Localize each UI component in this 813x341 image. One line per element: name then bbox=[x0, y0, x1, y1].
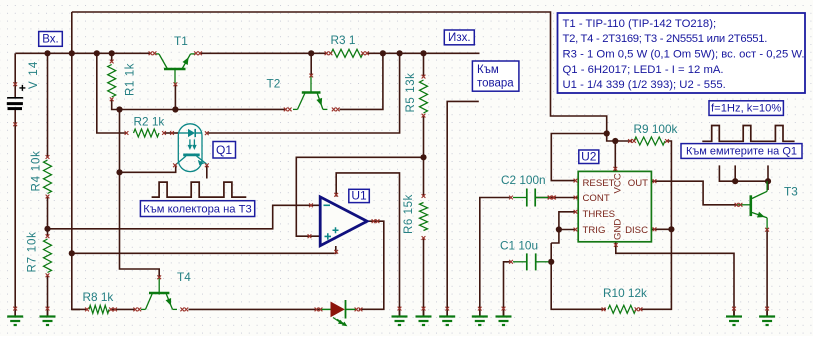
wire T2 emitter to bus bbox=[340, 53, 383, 109]
IC U2 pin labels bbox=[583, 173, 649, 240]
label R4 10k bbox=[31, 150, 43, 191]
optocoupler Q1 LED bbox=[179, 129, 202, 137]
pin marks R9 bbox=[628, 139, 669, 143]
label R10 12k bbox=[603, 286, 647, 300]
capacitor C2 bbox=[513, 189, 549, 207]
resistor R7 bbox=[44, 239, 52, 273]
junction node x71/op-amp bus bbox=[69, 250, 75, 256]
label R7 10k bbox=[27, 231, 39, 272]
ground T3 bbox=[759, 307, 775, 325]
label box f=1Hz bbox=[709, 101, 783, 116]
wire bus T1 to T2 collector node bbox=[199, 52, 328, 54]
wire R6 to ground bbox=[423, 238, 425, 316]
resistor R2 bbox=[134, 129, 160, 137]
wire annotation stub right bbox=[767, 165, 769, 181]
label box Q1 bbox=[213, 142, 236, 159]
transistor T1 bbox=[155, 54, 196, 110]
optocoupler Q1 body bbox=[178, 124, 202, 172]
svg-text:T1 - TIP-110 (TIP-142 TO218);: T1 - TIP-110 (TIP-142 TO218); bbox=[563, 18, 717, 30]
svg-text:R3 - 1 Om 0,5 W (0,1 Om 5W);: R3 - 1 Om 0,5 W (0,1 Om 5W); вс. ост - 0… bbox=[563, 49, 805, 61]
pin marks LED1 bbox=[315, 308, 363, 312]
wire R7 to ground bbox=[47, 276, 49, 316]
svg-text:R8 1k: R8 1k bbox=[83, 290, 114, 304]
pin marks R4 bbox=[46, 155, 50, 198]
pin marks U2 bbox=[548, 167, 656, 247]
label C1 10u bbox=[500, 239, 538, 253]
pin marks R2 bbox=[125, 131, 174, 135]
svg-text:RESET: RESET bbox=[583, 178, 615, 189]
pin marks T1 bbox=[149, 51, 202, 86]
junction node bus/T2 collector bbox=[308, 50, 314, 56]
wire T3 collector riser bbox=[767, 181, 769, 190]
wire T3 emitter to ground bbox=[766, 230, 768, 316]
pin marks T2 bbox=[284, 74, 340, 112]
resistor R6 bbox=[420, 203, 428, 231]
svg-text:R5 13k: R5 13k bbox=[405, 72, 417, 112]
wire bus R3 right to end bbox=[367, 52, 480, 54]
wire C2 right to CONT pin bbox=[535, 197, 578, 199]
junction node DISC/R9/R10 bbox=[668, 226, 674, 232]
svg-text:R7 10k: R7 10k bbox=[27, 231, 39, 272]
wire Q1 cathode to bus bbox=[207, 53, 400, 133]
wire node A to T1 tail bbox=[120, 109, 176, 111]
junction node T3 collector bbox=[765, 178, 771, 184]
wire R5 bottom to noninverting input bbox=[296, 157, 423, 236]
junction node bus/Q1 cathode bbox=[397, 50, 403, 56]
resistor R4 bbox=[44, 160, 52, 194]
wire R4 to R7 junction bbox=[47, 197, 49, 237]
capacitor C1 bbox=[513, 253, 549, 270]
svg-text:TRIG: TRIG bbox=[583, 225, 606, 236]
wire R1 top stub bbox=[111, 53, 113, 62]
junction node A right T1 tail bbox=[172, 106, 178, 112]
wire T4 emitter to LED anode bbox=[189, 308, 322, 310]
wire load annotation bbox=[447, 101, 479, 315]
wire node B down to T4 base bbox=[120, 110, 160, 278]
svg-text:DISC: DISC bbox=[625, 225, 648, 236]
pin marks battery bbox=[13, 82, 17, 126]
label box Vkh bbox=[39, 32, 63, 47]
resistor R9 bbox=[634, 137, 665, 145]
waveform at Q1 emitters bbox=[702, 126, 794, 142]
wire T3 collector node link bbox=[735, 180, 768, 182]
svg-text:U1: U1 bbox=[351, 188, 367, 202]
svg-text:C2 100n: C2 100n bbox=[501, 173, 546, 187]
wire op-amp bottom power bus bbox=[72, 246, 336, 253]
svg-text:V 14: V 14 bbox=[28, 61, 40, 89]
svg-text:R9 100k: R9 100k bbox=[634, 122, 678, 136]
resistor R8 bbox=[89, 305, 109, 313]
svg-text:U1 - 1/4 339 (1/2 393); U2 - 5: U1 - 1/4 339 (1/2 393); U2 - 555. bbox=[563, 79, 726, 91]
svg-text:T2, T4 - 2T3169; T3 - 2N5551 и: T2, T4 - 2T3169; T3 - 2N5551 или 2T6551. bbox=[563, 33, 768, 45]
note line 5 bbox=[563, 79, 726, 91]
label box to collector T3 bbox=[140, 201, 254, 217]
pin marks T4 bbox=[133, 275, 188, 311]
junction node bus/R5 bbox=[420, 50, 426, 56]
wire LED row left bbox=[72, 308, 87, 310]
wire T2 collector stub bbox=[310, 53, 312, 75]
note line 2 bbox=[563, 33, 768, 45]
wire op-amp power top route bbox=[336, 173, 399, 316]
label T3 bbox=[784, 185, 798, 199]
svg-text:R3 1: R3 1 bbox=[331, 33, 356, 47]
label T2 bbox=[267, 77, 281, 91]
svg-text:U2: U2 bbox=[581, 149, 597, 163]
pin marks R8 bbox=[85, 308, 117, 312]
wire Q1 LED anode from R2 bbox=[164, 132, 179, 134]
note line 1 bbox=[563, 18, 717, 30]
wire R8 to T4 base bbox=[111, 308, 135, 310]
label box U1 bbox=[349, 188, 370, 202]
label C2 100n bbox=[501, 173, 546, 187]
junction node bus/x71 bbox=[69, 50, 75, 56]
wire R1 bottom jog to node bbox=[112, 99, 120, 110]
battery V 14 bbox=[7, 85, 26, 109]
wire left vertical x71 bus to R8 bbox=[72, 12, 80, 309]
resistor R1 bbox=[108, 65, 116, 98]
junction node A left bbox=[116, 106, 122, 112]
op-amp U1 bbox=[320, 197, 367, 246]
svg-text:T1: T1 bbox=[174, 34, 188, 48]
svg-text:VCC: VCC bbox=[613, 173, 624, 193]
svg-text:THRES: THRES bbox=[583, 209, 616, 220]
wire battery top bbox=[14, 53, 16, 97]
pin marks R7 bbox=[46, 234, 50, 277]
junction node TRIG/THRES bbox=[556, 226, 562, 232]
wire Q1 emitter stub annotation bbox=[206, 165, 208, 179]
pin marks C2 bbox=[509, 196, 555, 200]
junction node R5/R6 divider bbox=[420, 154, 426, 160]
label R6 15k bbox=[403, 194, 415, 234]
wire main supply bus y53 left bbox=[16, 52, 152, 54]
junction node bus/R2 bbox=[94, 50, 100, 56]
ground battery bbox=[7, 307, 23, 325]
LED LED1 bbox=[321, 300, 357, 326]
wire VCC pin stub bbox=[614, 141, 616, 171]
svg-text:R1 1k: R1 1k bbox=[125, 63, 137, 96]
pin marks R3 bbox=[325, 51, 369, 55]
wire C1 right junction riser bbox=[551, 243, 601, 309]
pin marks R6 bbox=[422, 194, 426, 240]
wire VCC serpentine to RESET bbox=[551, 134, 606, 181]
svg-text:Към: Към bbox=[477, 64, 499, 76]
ground U2 GND bbox=[726, 307, 742, 325]
transistor T3 bbox=[738, 181, 768, 229]
resistor R5 bbox=[420, 80, 428, 113]
wire R10 left stub bbox=[602, 308, 607, 310]
svg-text:R6 15k: R6 15k bbox=[403, 194, 415, 234]
svg-text:R4 10k: R4 10k bbox=[31, 150, 43, 191]
wire VCC jog bbox=[607, 134, 616, 142]
label box to emitters Q1 bbox=[681, 144, 802, 159]
label R3 1 bbox=[331, 33, 356, 47]
note line 3 bbox=[563, 49, 805, 61]
label T1 bbox=[174, 34, 188, 48]
transistor T4 bbox=[141, 277, 177, 309]
svg-text:Вх.: Вх. bbox=[42, 33, 59, 45]
resistor R3 bbox=[331, 49, 363, 57]
junction node VCC lower bbox=[612, 138, 618, 144]
wire GND pin to ground bbox=[616, 242, 734, 316]
svg-text:R10 12k: R10 12k bbox=[603, 286, 647, 300]
svg-text:товара: товара bbox=[477, 78, 514, 90]
junction node bus/R1 bbox=[109, 50, 115, 56]
junction node R4/R7 divider bbox=[44, 226, 50, 232]
resistor R10 bbox=[608, 305, 636, 313]
wire THRES to TRIG tie bbox=[559, 212, 576, 230]
pin marks Q1 bbox=[173, 131, 209, 167]
wire OUT to T3 base route bbox=[651, 181, 737, 205]
notes box bbox=[558, 13, 806, 93]
svg-text:Към емитерите на Q1: Към емитерите на Q1 bbox=[686, 146, 797, 158]
svg-text:Q1: Q1 bbox=[216, 143, 232, 157]
junction node VCC upper bbox=[604, 130, 610, 136]
wire top rail bbox=[72, 12, 607, 134]
wire R2 feed from bus bbox=[97, 53, 126, 133]
wire annotation stub left bbox=[719, 165, 735, 181]
wire TRIG node to C1 bbox=[551, 230, 559, 244]
wire Q1 phototransistor collector to node B bbox=[120, 165, 176, 173]
optocoupler Q1 phototransistor bbox=[177, 155, 207, 165]
ground C2 bbox=[472, 307, 488, 325]
wire DISC pin to riser bbox=[651, 228, 671, 230]
ground R7 bbox=[40, 307, 56, 325]
label V 14 bbox=[28, 61, 40, 89]
IC U2 body bbox=[578, 171, 651, 241]
label box Izkh bbox=[444, 30, 474, 45]
junction node B Q1 collector bbox=[116, 169, 122, 175]
pin marks T3 bbox=[735, 203, 769, 232]
svg-text:OUT: OUT bbox=[628, 178, 648, 189]
pin marks U1 bbox=[308, 193, 380, 254]
junction node C1/TRIG bbox=[548, 259, 554, 265]
ground load bbox=[439, 307, 455, 325]
svg-text:T3: T3 bbox=[784, 185, 798, 199]
waveform at T3 collector bbox=[152, 182, 247, 197]
pin marks R1 bbox=[110, 60, 114, 102]
label R2 1k bbox=[134, 115, 165, 129]
wire C2 left to ground bbox=[480, 198, 510, 316]
ground C1 bbox=[496, 307, 512, 325]
junction node bus/T2 emitter bbox=[380, 50, 386, 56]
wire node A to T2 base bbox=[175, 108, 285, 110]
label box U2 bbox=[579, 149, 599, 163]
svg-text:Q1 - 6H2017; LED1 - I = 12 mA.: Q1 - 6H2017; LED1 - I = 12 mA. bbox=[563, 64, 724, 76]
transistor T2 bbox=[293, 76, 327, 110]
svg-text:f=1Hz, k=10%: f=1Hz, k=10% bbox=[711, 103, 781, 115]
svg-text:CONT: CONT bbox=[583, 193, 610, 204]
svg-text:R2 1k: R2 1k bbox=[134, 115, 165, 129]
svg-text:Към колектора на Т3: Към колектора на Т3 bbox=[143, 204, 251, 216]
wire C1 left to ground bbox=[504, 262, 510, 316]
wire annotation stub mid bbox=[734, 165, 736, 181]
svg-text:GND: GND bbox=[613, 219, 624, 240]
wire R5 top stub bbox=[423, 53, 425, 77]
label R8 1k bbox=[83, 290, 114, 304]
junction node bus/battery-R4 bbox=[44, 50, 50, 56]
junction node T3 annot left bbox=[732, 178, 738, 184]
svg-text:T2: T2 bbox=[267, 77, 281, 91]
label box load bbox=[472, 61, 519, 91]
ground op-amp rail bbox=[392, 307, 408, 325]
wire inverting input route bbox=[48, 205, 321, 229]
wire R9 left stub bbox=[615, 140, 632, 142]
svg-text:T4: T4 bbox=[177, 270, 191, 284]
svg-text:C1 10u: C1 10u bbox=[500, 239, 538, 253]
label R9 100k bbox=[634, 122, 678, 136]
pin marks R10 bbox=[602, 307, 643, 311]
wire battery bottom to ground bbox=[14, 110, 16, 316]
optocoupler Q1 arrows bbox=[188, 139, 197, 150]
label R1 1k bbox=[125, 63, 137, 96]
label R5 13k bbox=[405, 72, 417, 112]
label T4 bbox=[177, 270, 191, 284]
pin mark C1 bbox=[509, 260, 513, 264]
svg-text:Изх.: Изх. bbox=[448, 32, 470, 44]
wire R4 branch from bus bbox=[47, 53, 49, 157]
wire R9 right corner down to DISC R10 bbox=[639, 141, 671, 309]
pin marks R5 bbox=[422, 75, 426, 118]
ground R6 bbox=[416, 307, 432, 325]
note line 4 bbox=[563, 64, 724, 76]
wire op-amp output route bbox=[359, 221, 384, 309]
wire R5 to R6 bbox=[423, 116, 425, 196]
